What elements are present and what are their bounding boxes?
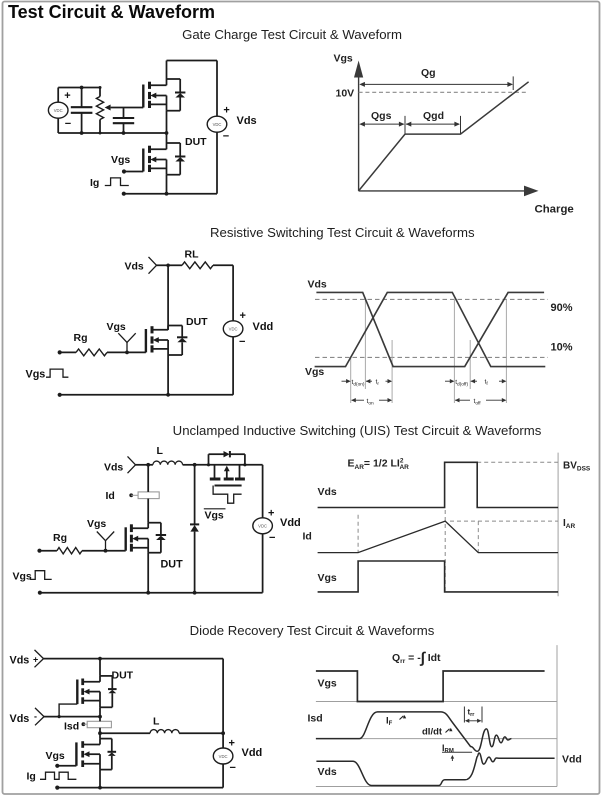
svg-text:Qg: Qg xyxy=(421,67,436,79)
Id waveform ramp trace xyxy=(318,521,558,553)
svg-text:Vdd: Vdd xyxy=(253,321,274,333)
IF label with pointer xyxy=(386,715,406,727)
svg-text:−: − xyxy=(269,532,275,544)
svg-text:VDC: VDC xyxy=(54,108,63,113)
td(on) dimension arrow xyxy=(342,379,351,383)
junction dots on clamp top rail xyxy=(207,463,210,466)
svg-text:Vgs: Vgs xyxy=(205,510,224,522)
svg-text:Vgs: Vgs xyxy=(26,368,46,380)
Isd diode current trace with reverse recovery ringing xyxy=(316,712,512,751)
td(off) dimension arrow xyxy=(445,379,454,383)
wire: M2 source to bottom node xyxy=(166,175,168,194)
transistor M6 (lower driven MOSFET) xyxy=(76,739,116,770)
Isd current probe xyxy=(82,721,112,727)
Ig gate-current pulse glyph xyxy=(105,178,129,186)
svg-text:Vgs: Vgs xyxy=(334,53,353,65)
svg-text:+: + xyxy=(64,90,70,102)
svg-text:dI/dt: dI/dt xyxy=(422,727,443,738)
svg-text:Vds: Vds xyxy=(125,261,144,273)
svg-text:VDC: VDC xyxy=(258,524,267,529)
svg-text:Resistive Switching Test Circu: Resistive Switching Test Circuit & Wavef… xyxy=(210,225,475,240)
inductor L (recovery di/dt) xyxy=(100,730,225,736)
svg-text:Vds: Vds xyxy=(318,766,337,778)
voltage source V5 Vdd xyxy=(213,659,233,788)
dashed IAR level line xyxy=(450,520,558,522)
svg-text:VDC: VDC xyxy=(213,122,222,127)
svg-text:+: + xyxy=(268,508,274,520)
svg-text:Qgs: Qgs xyxy=(371,110,392,122)
svg-text:−: − xyxy=(230,762,236,774)
gray reference line: Isd zero level xyxy=(316,738,557,740)
svg-text:Charge: Charge xyxy=(535,204,574,216)
Vds probe arrow xyxy=(128,456,136,464)
freewheel diode D5 xyxy=(190,465,199,595)
svg-text:Vgs: Vgs xyxy=(13,571,32,583)
wire: top rail xyxy=(44,657,224,661)
wire: M1 source down to DUT drain node xyxy=(166,111,168,133)
Vds- probe arrow xyxy=(35,708,44,717)
voltage source V1 (VDC, gate-drive supply) xyxy=(48,88,68,134)
svg-text:Vgs: Vgs xyxy=(318,678,337,690)
svg-text:Vds: Vds xyxy=(10,655,30,667)
tr dimension arrows xyxy=(366,379,392,383)
svg-text:-: - xyxy=(34,712,37,722)
svg-text:Diode Recovery Test Circuit &: Diode Recovery Test Circuit & Waveforms xyxy=(190,623,435,638)
timing reference vertical t4 (Vgs 90% fall) xyxy=(453,300,455,404)
Vgs waveform trace xyxy=(315,292,546,366)
timing reference vertical t2 (Vds 90% fall) xyxy=(364,300,366,390)
wire: V1 loop top rail xyxy=(58,87,100,89)
svg-text:+: + xyxy=(240,310,246,322)
svg-text:Isd: Isd xyxy=(308,713,323,725)
Vds+ probe arrow xyxy=(35,650,44,659)
transistor M5 DUT (top MOSFET, gate tied to source) xyxy=(77,676,116,707)
clamp MOSFET Q2 (rotated, gate below) xyxy=(210,465,245,486)
svg-text:+: + xyxy=(229,738,235,750)
svg-text:Qgd: Qgd xyxy=(423,110,444,122)
ton dimension arrow xyxy=(351,398,392,402)
wire: bottom rail xyxy=(55,786,223,790)
svg-text:L: L xyxy=(157,445,164,457)
Vgs input pulse glyph xyxy=(46,369,68,377)
svg-text:RL: RL xyxy=(185,249,200,261)
90% dashed reference line xyxy=(315,298,548,300)
wire: M5 source vertical through Isd probe xyxy=(98,707,102,735)
svg-text:Vds: Vds xyxy=(237,115,257,127)
svg-text:90%: 90% xyxy=(551,302,573,314)
svg-text:Vgs: Vgs xyxy=(318,572,337,584)
voltage source V3 Vdd xyxy=(223,265,243,395)
svg-text:Ig: Ig xyxy=(27,771,36,783)
Vgs gate pulse trace xyxy=(316,671,545,702)
svg-text:VDC: VDC xyxy=(219,754,228,759)
timing reference vertical t6 (Vds 90% rise) xyxy=(505,300,507,404)
svg-text:Rg: Rg xyxy=(53,532,67,544)
svg-text:Rg: Rg xyxy=(74,332,88,344)
Vgs input pulse glyph xyxy=(30,571,52,580)
Vds probe arrow xyxy=(149,257,157,265)
IRM label with leader and up arrow xyxy=(442,743,472,761)
Rg gate resistor xyxy=(37,548,125,554)
svg-text:Ig: Ig xyxy=(90,177,99,189)
wire: V1 loop bottom rail xyxy=(58,132,166,134)
svg-text:−: − xyxy=(239,336,245,348)
wire: M1 gate lead xyxy=(142,107,144,109)
Qgs span arrow xyxy=(359,116,405,134)
Id current probe xyxy=(129,492,159,499)
svg-text:Vds: Vds xyxy=(10,713,30,725)
svg-text:10%: 10% xyxy=(551,342,573,354)
Vds trace with recovery snap and ringing xyxy=(316,753,554,786)
gray reference line: Vds low level xyxy=(316,786,557,788)
wire: M1 drain to top rail xyxy=(166,61,168,80)
wire: drain vertical xyxy=(167,265,169,330)
svg-text:DUT: DUT xyxy=(112,670,134,682)
voltage source V2 Vds (drain supply) xyxy=(207,61,227,194)
wire: source sense node xyxy=(44,715,102,719)
svg-text:Unclamped Inductive Switching: Unclamped Inductive Switching (UIS) Test… xyxy=(173,423,542,438)
svg-text:L: L xyxy=(153,716,160,728)
right reference axis xyxy=(557,453,559,597)
svg-text:DUT: DUT xyxy=(185,136,207,148)
svg-text:DUT: DUT xyxy=(161,559,184,571)
toff dimension arrow xyxy=(455,398,507,402)
gate-charge plot: y-axis with arrow xyxy=(354,61,363,191)
wire: bottom rail xyxy=(58,393,234,397)
potentiometer R1 (gate drive adjust) xyxy=(96,88,110,134)
svg-text:−: − xyxy=(65,118,71,130)
10% dashed reference line xyxy=(315,356,548,358)
Qgd span arrow xyxy=(406,116,461,134)
wire: bottom return node to Vds source minus xyxy=(122,192,217,196)
voltage source V4 Vdd xyxy=(253,465,273,593)
transistor M1 (upper MOSFET with body diode) xyxy=(143,79,185,111)
inductor L xyxy=(148,461,194,465)
svg-text:Test Circuit & Waveform: Test Circuit & Waveform xyxy=(8,2,215,22)
wire: pot wiper to gate node xyxy=(111,107,144,109)
clamp body diode D6 (horizontal, pointing right) xyxy=(209,451,245,465)
svg-text:Vgs: Vgs xyxy=(111,154,130,166)
wire: probe to drain node xyxy=(157,264,169,266)
Vgs probe Y symbol xyxy=(97,532,114,553)
dashed 10V reference line xyxy=(359,91,527,93)
svg-text:Vgs: Vgs xyxy=(107,321,126,333)
right reference axis xyxy=(556,645,558,786)
svg-text:Vdd: Vdd xyxy=(242,747,263,759)
inverted Vgs label with overline xyxy=(204,509,226,522)
svg-text:Vds: Vds xyxy=(318,486,337,498)
svg-text:Id: Id xyxy=(303,531,312,543)
wire: M5 drain to top rail xyxy=(99,659,101,676)
svg-text:+: + xyxy=(33,655,38,665)
gray reference line: Vgs low level xyxy=(316,701,557,703)
svg-text:VDC: VDC xyxy=(229,327,238,332)
svg-text:Vds: Vds xyxy=(308,279,327,291)
Rg gate resistor xyxy=(58,349,146,356)
Vds waveform trace with avalanche spike xyxy=(318,462,558,507)
wire: M3 source to bottom rail xyxy=(167,355,169,395)
wire: M6 gate input xyxy=(55,764,76,768)
svg-text:Vgs: Vgs xyxy=(87,518,106,530)
clamp gate drive inverted pulse glyph xyxy=(213,486,242,504)
junction dot at drain node xyxy=(166,264,170,268)
svg-text:Vgs: Vgs xyxy=(46,750,65,762)
svg-text:10V: 10V xyxy=(336,88,355,100)
transistor M3 DUT (with body diode) xyxy=(146,326,188,356)
svg-text:+: + xyxy=(223,105,229,117)
wire: top rail to clamp and supply xyxy=(195,464,263,466)
svg-text:Qrr = -∫ Idt: Qrr = -∫ Idt xyxy=(392,650,441,667)
svg-text:Vds: Vds xyxy=(104,462,123,474)
transistor M2 DUT (lower MOSFET with body diode) xyxy=(143,143,185,175)
trr dimension ticks and arrows xyxy=(464,707,482,723)
gate-charge plot: x-axis with arrow xyxy=(359,186,539,197)
timing reference vertical t3 (Vds 10% fall) xyxy=(391,340,393,403)
Ig double pulse glyph xyxy=(40,772,76,779)
wire: M6 source to bottom rail xyxy=(99,770,101,788)
svg-text:−: − xyxy=(223,130,229,142)
dashed marker: current-zero vertical xyxy=(477,521,479,553)
wire: bottom rail xyxy=(38,591,263,595)
svg-text:Id: Id xyxy=(106,490,115,502)
capacitor C1 (input bypass) xyxy=(71,88,93,134)
wire: M5 gate tied down to source node xyxy=(59,704,77,717)
wire: gate drive input to M2 gate xyxy=(122,169,143,173)
svg-text:Isd: Isd xyxy=(64,721,79,733)
svg-text:Vgs: Vgs xyxy=(305,366,324,378)
Qg span arrow xyxy=(359,76,513,90)
wire: probe to drain node xyxy=(136,464,149,466)
Vgs waveform trace xyxy=(318,561,558,592)
dashed marker: avalanche start vertical xyxy=(357,515,359,553)
svg-text:Gate Charge Test Circuit & Wav: Gate Charge Test Circuit & Waveform xyxy=(182,27,402,42)
capacitor C2 (gate capacitor) xyxy=(113,108,134,134)
resistor RL (load) xyxy=(168,262,233,269)
timing reference vertical t1 (Vgs 10% rise) xyxy=(350,358,352,404)
svg-text:Vdd: Vdd xyxy=(562,754,582,766)
wire: top rail to Vds source xyxy=(167,60,218,62)
wire: M6 drain to switching node xyxy=(99,733,101,738)
wire: M4 source to bottom rail xyxy=(147,553,149,593)
wire: M2 drain stub xyxy=(166,133,168,143)
dashed marker: turn-off vertical xyxy=(444,510,446,592)
Vds waveform trace xyxy=(316,292,544,366)
gate charge curve xyxy=(359,82,529,191)
junction dots on left loop xyxy=(80,86,84,90)
dashed BVDSS level line xyxy=(477,461,558,463)
tf dimension arrows xyxy=(471,379,507,383)
transistor M4 DUT (with body diode) xyxy=(126,523,166,553)
wire: drain vertical through current probe xyxy=(147,465,149,492)
Vgs probe Y symbol xyxy=(118,333,135,354)
dI/dt label with pointer xyxy=(422,727,453,738)
svg-text:DUT: DUT xyxy=(186,316,208,328)
svg-text:Vdd: Vdd xyxy=(280,517,301,529)
timing reference vertical t5 (Vds 10% rise) xyxy=(469,340,471,389)
